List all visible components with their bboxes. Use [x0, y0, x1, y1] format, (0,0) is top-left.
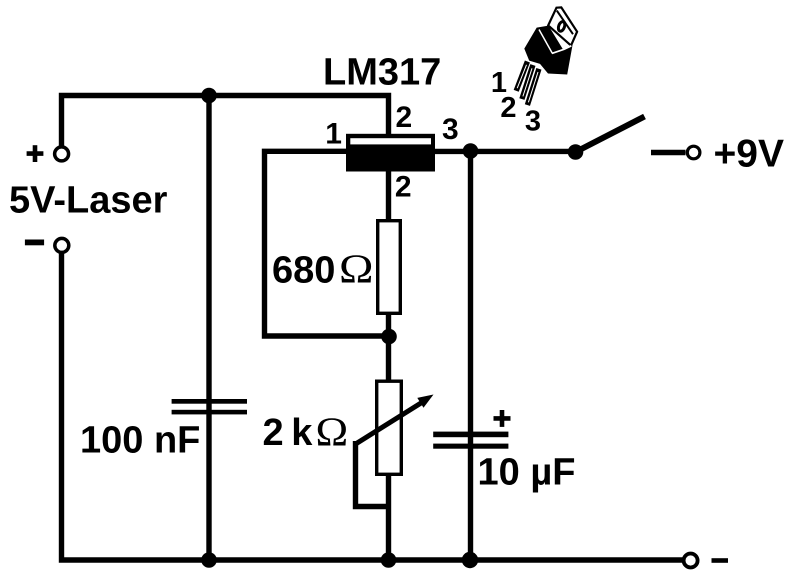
- wire regulator output drop through C2: [468, 151, 473, 560]
- svg-text:10 µF: 10 µF: [478, 451, 576, 493]
- TO-220 metal tab: [548, 7, 577, 45]
- terminal +9V: [687, 146, 700, 159]
- wire left rail from - terminal and bottom rail: [62, 254, 684, 561]
- wire pin3 to switch: [435, 149, 576, 154]
- wire pin1 loop to node A: [265, 151, 390, 336]
- svg-text:2: 2: [263, 412, 284, 454]
- resistor R1 680 ohm: [378, 221, 401, 314]
- node junction top: [201, 88, 217, 104]
- potentiometer R2 arrow: [356, 401, 425, 445]
- svg-text:2: 2: [396, 101, 413, 134]
- node junction C2 bottom: [462, 552, 478, 568]
- svg-text:3: 3: [442, 113, 459, 146]
- svg-text:5V-Laser: 5V-Laser: [9, 180, 168, 222]
- wire R1 bottom to R2 top: [386, 314, 391, 381]
- node junction regulator output: [463, 143, 479, 159]
- svg-text:3: 3: [525, 105, 541, 137]
- svg-text:1: 1: [325, 117, 342, 150]
- switch S1 pivot: [568, 144, 584, 160]
- node junction R2 bottom: [381, 552, 397, 568]
- TO-220 body: [524, 26, 572, 75]
- node junction C1 bottom: [201, 552, 217, 568]
- svg-text:680: 680: [272, 250, 335, 292]
- TO-220 mounting hole: [557, 21, 566, 32]
- potentiometer R2 body: [377, 381, 402, 474]
- svg-text:+9V: +9V: [714, 132, 784, 175]
- svg-text:100 nF: 100 nF: [80, 420, 200, 462]
- transistor package TO-220 drawing: [516, 7, 577, 105]
- minus sign output: [712, 558, 729, 563]
- svg-text:Ω: Ω: [339, 247, 373, 292]
- svg-text:LM317: LM317: [323, 52, 441, 94]
- wire pin2 bottom to R1: [386, 171, 391, 220]
- switch S1 lever: [576, 117, 645, 153]
- plus sign C2: [494, 410, 511, 427]
- node A junction below R1: [381, 329, 397, 345]
- svg-text:2: 2: [500, 92, 516, 124]
- terminal + input: [55, 147, 69, 161]
- TO-220 legs: [516, 62, 539, 106]
- wire switch output to +9V terminal: [651, 150, 686, 155]
- op-amp U1 LM317 regulator body: [346, 134, 435, 172]
- wire top rail from + terminal to LM317 pin2: [62, 96, 389, 146]
- plus sign input: [27, 145, 44, 162]
- svg-text:2: 2: [395, 170, 412, 203]
- capacitor C2 10uF plates: [433, 432, 508, 438]
- minus sign input: [25, 240, 44, 246]
- svg-text:k: k: [291, 412, 313, 454]
- terminal - input: [55, 238, 69, 252]
- wire middle vertical through C1: [206, 96, 211, 561]
- capacitor C1 100nF plates: [172, 399, 247, 404]
- wire wiper return: [356, 441, 389, 507]
- svg-text:Ω: Ω: [316, 410, 349, 455]
- terminal output minus: [684, 554, 698, 568]
- wire R2 bottom lead: [386, 475, 391, 560]
